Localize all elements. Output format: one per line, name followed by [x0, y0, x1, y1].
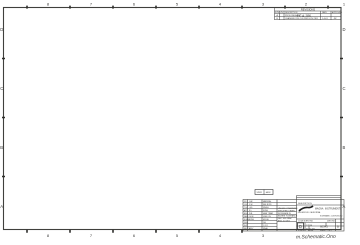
svg-text:CODE IDENT NO: CODE IDENT NO: [298, 221, 314, 223]
svg-text:NONE: NONE: [308, 230, 314, 232]
svg-text:FINAL: FINAL: [263, 227, 268, 230]
svg-text:4: 4: [219, 2, 222, 7]
svg-text:B: B: [0, 145, 3, 150]
svg-text:CHANGED R56 C40 PER ECN 2381: CHANGED R56 C40 PER ECN 2381: [285, 17, 319, 20]
svg-text:SYM: SYM: [275, 12, 279, 14]
company logo swoosh: [299, 206, 313, 211]
svg-text:ANG 1/2 DEG: ANG 1/2 DEG: [278, 220, 290, 223]
right zone letters: [343, 27, 346, 209]
svg-text:6: 6: [133, 233, 136, 238]
svg-text:SHEET 1 OF 1: SHEET 1 OF 1: [320, 230, 332, 232]
svg-text:MODEL: MODEL: [263, 219, 269, 221]
svg-text:1-4-61: 1-4-61: [322, 18, 329, 20]
svg-text:HEAT TREAT: HEAT TREAT: [263, 212, 273, 215]
svg-text:8: 8: [47, 233, 50, 238]
svg-text:SHT: SHT: [244, 225, 247, 227]
title row: [298, 221, 336, 223]
svg-text:60345: 60345: [320, 225, 328, 229]
title block outline: [243, 196, 344, 232]
svg-text:D: D: [343, 27, 346, 32]
cage code: [306, 225, 316, 231]
spkr box text: [257, 191, 272, 194]
svg-text:SCALE: SCALE: [298, 229, 305, 232]
svg-text:DWG: DWG: [244, 222, 249, 224]
company address: [298, 211, 342, 218]
svg-text:DATE: DATE: [322, 11, 327, 14]
bottom strip row: [298, 229, 332, 232]
right zone ticks: [340, 59, 343, 177]
svg-text:5: 5: [176, 2, 179, 7]
svg-text:A: A: [0, 204, 3, 209]
svg-text:8: 8: [47, 2, 50, 7]
svg-text:260: 260: [263, 222, 266, 224]
spkr box divider: [263, 190, 265, 195]
svg-text:DESCRIPTION: DESCRIPTION: [298, 203, 312, 205]
svg-text:TOL: TOL: [244, 207, 247, 209]
svg-text:5: 5: [176, 233, 179, 238]
svg-text:1 OF 1: 1 OF 1: [263, 225, 268, 227]
bottom zone ticks: [27, 230, 242, 233]
svg-text:MAGNA: MAGNA: [315, 208, 324, 211]
top zone ticks: [27, 6, 328, 9]
revision row A entry: [277, 14, 302, 17]
size letter box: [298, 223, 304, 230]
top zone numbers: [47, 2, 346, 7]
svg-text:REVISIONS: REVISIONS: [301, 8, 315, 12]
svg-text:JW: JW: [334, 18, 337, 20]
svg-text:3: 3: [262, 2, 265, 7]
svg-text:R.L.: R.L.: [249, 210, 253, 212]
svg-text:SCHEMATIC CUSTOM 260: SCHEMATIC CUSTOM 260: [320, 215, 342, 218]
svg-text:.005: .005: [249, 207, 252, 209]
svg-text:7: 7: [90, 233, 93, 238]
svg-text:D: D: [299, 224, 302, 229]
svg-text:12936: 12936: [306, 225, 313, 227]
dense stamp blob: [278, 208, 298, 223]
svg-text:6: 6: [133, 2, 136, 7]
svg-text:INSTRUMENTS: INSTRUMENTS: [325, 209, 342, 211]
left zone ticks: [2, 59, 5, 177]
svg-text:B: B: [337, 225, 339, 229]
svg-text:2: 2: [305, 2, 308, 7]
svg-text:D.W.: D.W.: [249, 204, 253, 206]
svg-text:SEE NOTE: SEE NOTE: [263, 204, 272, 206]
svg-text:C: C: [343, 86, 346, 91]
revision table outline: [275, 8, 342, 20]
svg-text:SPKR: SPKR: [257, 192, 263, 194]
svg-text:1: 1: [343, 2, 346, 7]
svg-text:C: C: [0, 86, 3, 91]
svg-text:NONE: NONE: [249, 219, 255, 221]
svg-text:3: 3: [262, 233, 265, 238]
svg-text:USED ON: USED ON: [263, 216, 271, 218]
svg-text:INGLEWOOD CALIFORNIA: INGLEWOOD CALIFORNIA: [298, 211, 321, 214]
svg-text:D: D: [0, 27, 3, 32]
bottom zone numbers: [47, 233, 265, 238]
spkr box above title: [255, 190, 273, 195]
svg-text:APPROVED: APPROVED: [332, 11, 343, 14]
svg-text:NEXT ASSY: NEXT ASSY: [244, 227, 254, 230]
svg-text:DWG NO: DWG NO: [327, 221, 336, 223]
svg-text:7: 7: [90, 2, 93, 7]
svg-text:m.Schematic.Ono: m.Schematic.Ono: [296, 234, 336, 241]
svg-text:4: 4: [219, 233, 222, 238]
svg-text:JACK: JACK: [266, 191, 272, 194]
svg-text:B: B: [343, 145, 346, 150]
parts list tiny rows: [244, 200, 273, 230]
svg-text:FINISH: FINISH: [263, 207, 269, 209]
left zone letters: [0, 27, 3, 209]
svg-text:W.B.: W.B.: [249, 213, 253, 215]
svg-text:NONE: NONE: [263, 210, 269, 212]
company name: [315, 208, 342, 211]
svg-text:J.M.: J.M.: [244, 204, 248, 206]
svg-text:MATERIAL: MATERIAL: [263, 200, 271, 203]
revision row B entry: [277, 17, 337, 20]
revision column headers: [275, 11, 343, 14]
svg-text:10-58: 10-58: [249, 216, 253, 218]
